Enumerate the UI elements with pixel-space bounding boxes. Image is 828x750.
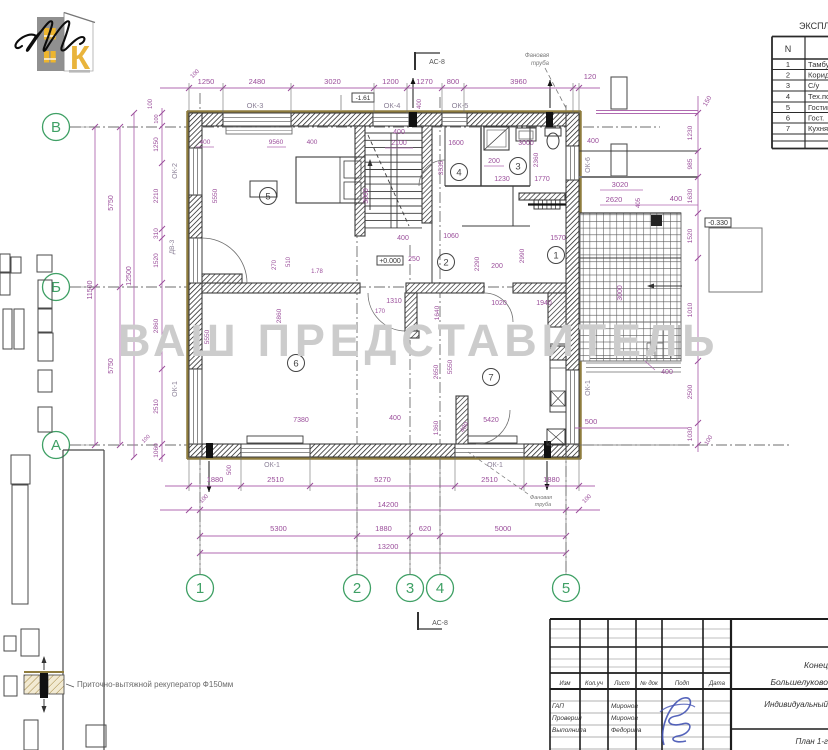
svg-text:4: 4: [436, 580, 444, 597]
svg-text:200: 200: [488, 158, 500, 165]
svg-text:ОК-1: ОК-1: [487, 462, 503, 469]
svg-text:1570: 1570: [550, 235, 566, 242]
svg-text:труба: труба: [531, 61, 550, 67]
svg-text:3000: 3000: [518, 140, 534, 147]
svg-text:1060: 1060: [443, 233, 459, 240]
svg-text:3: 3: [515, 162, 520, 173]
svg-text:Кухня: Кухня: [808, 124, 828, 133]
svg-text:200: 200: [491, 263, 503, 270]
svg-text:5: 5: [265, 192, 270, 203]
svg-text:Большелуково: Большелуково: [770, 677, 828, 687]
svg-text:400: 400: [587, 138, 599, 145]
svg-text:АС-8: АС-8: [432, 620, 448, 627]
svg-text:4: 4: [786, 92, 790, 101]
svg-text:2360: 2360: [533, 152, 540, 167]
svg-text:Тамбур: Тамбур: [808, 60, 828, 69]
svg-text:5300: 5300: [270, 524, 287, 533]
svg-text:А: А: [51, 437, 61, 454]
svg-text:С/у: С/у: [808, 81, 820, 90]
svg-text:5270: 5270: [374, 475, 391, 484]
svg-text:2: 2: [443, 258, 448, 269]
svg-text:5000: 5000: [495, 524, 512, 533]
svg-text:ОК-5: ОК-5: [452, 101, 469, 110]
svg-text:1060: 1060: [153, 443, 160, 458]
svg-text:ОК-4: ОК-4: [384, 101, 401, 110]
svg-text:Тех.пом: Тех.пом: [808, 92, 828, 101]
svg-text:800: 800: [447, 77, 460, 86]
svg-text:5750: 5750: [108, 195, 115, 211]
svg-text:2510: 2510: [481, 475, 498, 484]
svg-text:2: 2: [353, 580, 361, 597]
svg-text:2290: 2290: [474, 256, 481, 271]
svg-text:985: 985: [687, 158, 694, 169]
svg-text:1310: 1310: [386, 298, 402, 305]
svg-text:2100: 2100: [391, 140, 407, 147]
svg-text:2500: 2500: [687, 384, 694, 399]
svg-text:ОК-2: ОК-2: [172, 163, 179, 179]
svg-text:400: 400: [393, 129, 405, 136]
svg-text:3: 3: [786, 81, 790, 90]
svg-text:1880: 1880: [375, 524, 392, 533]
svg-text:Конец: Конец: [804, 660, 828, 670]
svg-text:Подп: Подп: [675, 681, 690, 687]
svg-text:2510: 2510: [153, 399, 160, 414]
svg-text:1270: 1270: [416, 77, 433, 86]
svg-text:400: 400: [307, 139, 318, 146]
svg-text:310: 310: [153, 228, 160, 239]
svg-text:400: 400: [389, 415, 401, 422]
svg-text:100: 100: [154, 114, 160, 123]
svg-text:1360: 1360: [433, 420, 440, 435]
svg-text:400: 400: [200, 139, 211, 146]
svg-text:ЭКСПЛИКАЦИЯ: ЭКСПЛИКАЦИЯ: [799, 21, 828, 31]
svg-text:5550: 5550: [212, 188, 219, 203]
svg-text:Кол.уч: Кол.уч: [585, 681, 603, 687]
svg-text:ОК-6: ОК-6: [585, 157, 592, 173]
svg-text:5420: 5420: [483, 417, 499, 424]
svg-text:1770: 1770: [534, 176, 550, 183]
svg-text:2620: 2620: [606, 195, 623, 204]
svg-text:11500: 11500: [87, 280, 94, 299]
svg-text:3020: 3020: [612, 180, 629, 189]
svg-text:7: 7: [488, 373, 493, 384]
svg-text:12500: 12500: [126, 266, 133, 286]
svg-text:-0.330: -0.330: [708, 220, 728, 227]
svg-text:1940: 1940: [536, 300, 552, 307]
svg-text:Дата: Дата: [708, 681, 725, 687]
svg-text:7: 7: [786, 124, 790, 133]
svg-text:2480: 2480: [249, 77, 266, 86]
svg-text:Гостиная: Гостиная: [808, 103, 828, 112]
svg-text:1030: 1030: [687, 426, 694, 441]
svg-text:1.78: 1.78: [311, 269, 323, 275]
svg-text:Фановая: Фановая: [530, 495, 552, 501]
svg-text:В: В: [51, 119, 61, 136]
svg-text:120: 120: [584, 72, 597, 81]
svg-text:Проверил: Проверил: [552, 715, 582, 722]
svg-text:Гост.: Гост.: [808, 114, 824, 123]
svg-text:100: 100: [148, 98, 154, 109]
svg-text:3960: 3960: [510, 77, 527, 86]
svg-text:3535: 3535: [438, 160, 445, 175]
svg-text:ОК-3: ОК-3: [247, 101, 264, 110]
svg-text:9560: 9560: [269, 139, 284, 146]
svg-text:N: N: [785, 44, 792, 54]
svg-text:1630: 1630: [687, 188, 694, 203]
svg-text:270: 270: [272, 259, 278, 270]
svg-text:1880: 1880: [543, 475, 560, 484]
svg-text:1250: 1250: [198, 77, 215, 86]
svg-text:ДВ-3: ДВ-3: [169, 239, 176, 254]
svg-text:1250: 1250: [153, 137, 160, 152]
svg-text:3020: 3020: [324, 77, 341, 86]
svg-text:7380: 7380: [293, 417, 309, 424]
svg-text:5: 5: [786, 103, 790, 112]
svg-text:400: 400: [417, 98, 423, 109]
svg-text:Фановая: Фановая: [525, 53, 550, 59]
svg-text:13200: 13200: [378, 542, 399, 551]
svg-text:250: 250: [408, 256, 420, 263]
svg-text:1880: 1880: [207, 475, 224, 484]
svg-text:1: 1: [553, 251, 558, 262]
svg-text:1200: 1200: [382, 77, 399, 86]
svg-text:Индивидуальный: Индивидуальный: [764, 700, 828, 709]
svg-text:400: 400: [670, 194, 683, 203]
svg-text:АС-8: АС-8: [429, 59, 445, 66]
svg-text:труба: труба: [535, 502, 551, 508]
svg-text:-1.61: -1.61: [356, 95, 371, 102]
svg-text:2650: 2650: [433, 364, 440, 379]
svg-text:620: 620: [419, 524, 432, 533]
svg-text:ОК-1: ОК-1: [172, 381, 179, 397]
svg-text:ОК-1: ОК-1: [264, 462, 280, 469]
svg-text:2: 2: [786, 71, 790, 80]
svg-text:405: 405: [636, 197, 642, 208]
svg-text:Лист: Лист: [613, 681, 629, 687]
svg-text:ВАШ ПРЕДСТАВИТЕЛЬ: ВАШ ПРЕДСТАВИТЕЛЬ: [118, 315, 719, 366]
svg-text:1230: 1230: [687, 125, 694, 140]
svg-text:Изм: Изм: [559, 681, 570, 687]
svg-text:5: 5: [562, 580, 570, 597]
svg-text:6: 6: [786, 114, 790, 123]
svg-text:2990: 2990: [519, 248, 526, 263]
svg-text:500: 500: [227, 464, 233, 475]
svg-text:500: 500: [585, 417, 598, 426]
svg-text:ГАП: ГАП: [552, 703, 564, 710]
svg-text:Федорина: Федорина: [611, 726, 642, 734]
svg-text:510: 510: [286, 256, 292, 267]
svg-text:Миронов: Миронов: [611, 715, 638, 722]
svg-text:План 1-г: План 1-г: [796, 737, 828, 746]
svg-text:Коридор: Коридор: [808, 71, 828, 80]
svg-text:Б: Б: [51, 279, 61, 296]
svg-text:3: 3: [406, 580, 414, 597]
svg-text:Приточно-вытяжной рекуператор: Приточно-вытяжной рекуператор Ф150мм: [77, 680, 233, 689]
svg-text:14200: 14200: [378, 500, 399, 509]
svg-text:Выполнила: Выполнила: [552, 727, 587, 734]
svg-text:+0.000: +0.000: [379, 258, 401, 265]
svg-text:400: 400: [661, 369, 673, 376]
svg-text:2510: 2510: [267, 475, 284, 484]
svg-text:1230: 1230: [494, 176, 510, 183]
svg-text:1520: 1520: [687, 228, 694, 243]
svg-text:1: 1: [786, 60, 790, 69]
svg-text:1: 1: [196, 580, 204, 597]
svg-text:4: 4: [456, 168, 461, 179]
svg-text:3000: 3000: [363, 188, 370, 204]
svg-text:3000: 3000: [617, 285, 624, 301]
svg-text:1520: 1520: [153, 253, 160, 268]
svg-text:2210: 2210: [153, 188, 160, 203]
svg-text:ОК-1: ОК-1: [585, 380, 592, 396]
svg-text:№ док: № док: [640, 680, 659, 687]
svg-text:5750: 5750: [108, 358, 115, 374]
svg-text:400: 400: [397, 235, 409, 242]
svg-text:1600: 1600: [448, 140, 464, 147]
svg-text:Миронов: Миронов: [611, 703, 638, 710]
